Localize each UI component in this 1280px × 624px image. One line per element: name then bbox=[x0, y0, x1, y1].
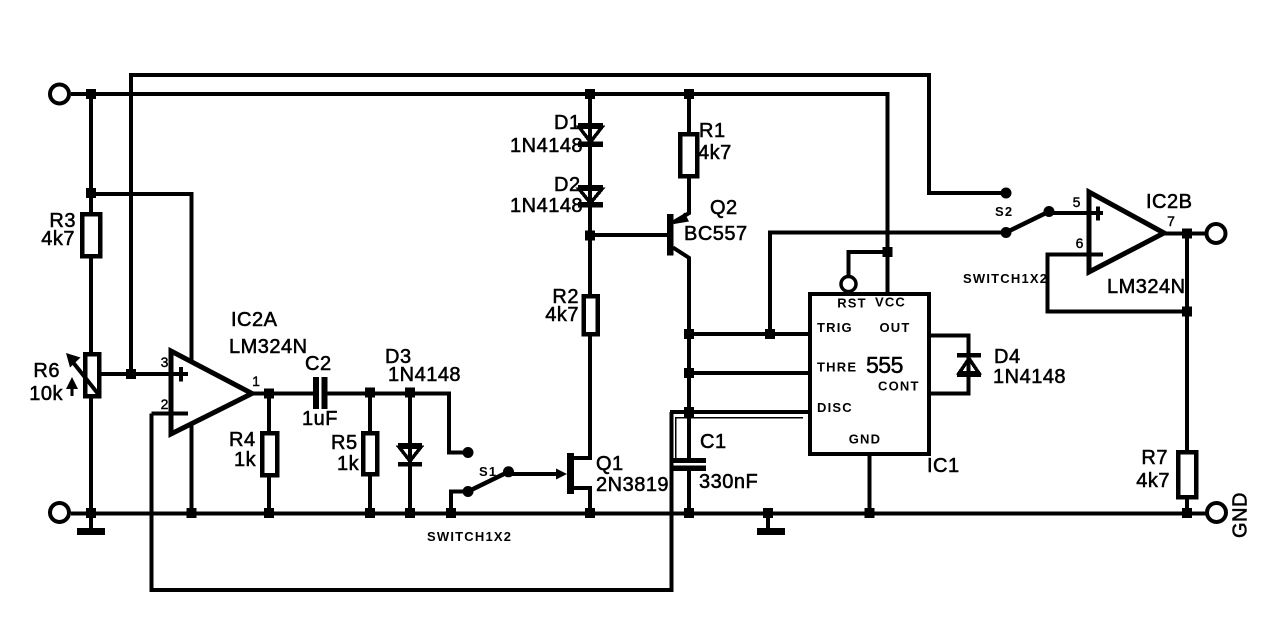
svg-text:5: 5 bbox=[1073, 194, 1081, 210]
svg-text:4k7: 4k7 bbox=[545, 304, 579, 326]
wire IC2B pin 5 bbox=[1049, 211, 1089, 215]
svg-text:SWITCH1X2: SWITCH1X2 bbox=[963, 271, 1048, 286]
svg-text:Q2: Q2 bbox=[710, 197, 738, 219]
svg-text:LM324N: LM324N bbox=[1107, 276, 1186, 298]
wire rail2 to R1 bbox=[687, 94, 691, 134]
svg-text:7: 7 bbox=[1167, 213, 1175, 229]
resistor R5 bbox=[363, 433, 377, 474]
op-amp IC2B plus input crossbar bbox=[1089, 207, 1103, 221]
wire 555 GND pin bbox=[868, 454, 872, 513]
svg-text:4k7: 4k7 bbox=[698, 142, 732, 164]
svg-text:SWITCH1X2: SWITCH1X2 bbox=[427, 529, 512, 544]
op-amp IC2A plus input crossbar bbox=[171, 367, 188, 382]
svg-text:1k: 1k bbox=[234, 449, 257, 471]
svg-text:C2: C2 bbox=[305, 353, 332, 375]
wire S1 lower contact to bottom rail bbox=[451, 492, 468, 514]
svg-text:VCC: VCC bbox=[875, 295, 906, 310]
diode D4 bbox=[957, 353, 981, 377]
transistor Q2 (PNP BC557) bbox=[667, 213, 690, 259]
svg-text:R1: R1 bbox=[699, 120, 726, 142]
wire rail2 to D1 bbox=[588, 94, 592, 236]
wire R7 bottom bbox=[1185, 497, 1189, 513]
svg-text:1N4148: 1N4148 bbox=[388, 364, 461, 386]
IC1 RST inverter bubble bbox=[841, 277, 856, 292]
resistor R3 bbox=[82, 214, 100, 256]
svg-text:TRIG: TRIG bbox=[817, 320, 853, 335]
wire Q2 collector down to C1 bbox=[687, 257, 691, 458]
wire R5 bottom bbox=[368, 474, 372, 513]
svg-text:IC2B: IC2B bbox=[1146, 191, 1192, 213]
svg-text:1N4148: 1N4148 bbox=[510, 195, 583, 217]
wire IC2B output column to R7 bbox=[1185, 234, 1189, 453]
svg-text:R4: R4 bbox=[229, 429, 256, 451]
wire THRE line bbox=[689, 371, 810, 375]
op-amp U1 IC2A bbox=[171, 351, 252, 434]
svg-text:OUT: OUT bbox=[880, 320, 911, 335]
wire ground stub left bbox=[89, 513, 93, 528]
svg-text:IC2A: IC2A bbox=[231, 309, 278, 331]
wire D3 top bbox=[408, 394, 412, 514]
svg-text:R7: R7 bbox=[1141, 447, 1168, 469]
wire R2 top bbox=[588, 236, 592, 297]
wire R6 wiper to IC2A pin 3 bbox=[99, 372, 176, 376]
op-amp IC2A minus input crossbar (pin 2 wire) bbox=[152, 412, 189, 416]
svg-text:CONT: CONT bbox=[878, 379, 920, 394]
svg-text:4k7: 4k7 bbox=[1136, 470, 1170, 492]
diode D1 bbox=[578, 123, 603, 147]
svg-text:1N4148: 1N4148 bbox=[993, 366, 1066, 388]
wire C1 bottom bbox=[687, 471, 691, 513]
terminal GND right bbox=[1207, 503, 1226, 522]
resistor R7 bbox=[1178, 452, 1196, 497]
svg-text:3: 3 bbox=[161, 354, 169, 370]
wire TRIG line bbox=[689, 332, 810, 336]
svg-text:D1: D1 bbox=[554, 112, 581, 134]
wire Q1 drain bbox=[574, 334, 590, 458]
svg-text:R6: R6 bbox=[33, 360, 60, 382]
svg-text:DISC: DISC bbox=[817, 400, 853, 415]
wire top rail 2 (V+) bbox=[71, 94, 888, 294]
svg-text:C1: C1 bbox=[700, 431, 727, 453]
svg-text:1N4148: 1N4148 bbox=[510, 135, 583, 157]
wire OUT pin to D4 bbox=[929, 336, 969, 394]
resistor R1 bbox=[680, 134, 697, 176]
resistor R2 bbox=[584, 296, 598, 334]
wire Q1 source bbox=[574, 488, 590, 513]
terminal input top bbox=[50, 85, 69, 104]
resistor R4 bbox=[262, 433, 277, 475]
svg-text:2: 2 bbox=[161, 396, 169, 412]
svg-text:BC557: BC557 bbox=[684, 223, 748, 245]
svg-text:THRE: THRE bbox=[817, 360, 857, 375]
potentiometer R6 small up arrow bbox=[66, 377, 78, 396]
svg-text:6: 6 bbox=[1076, 235, 1084, 251]
wire IC2A pin 2 feedback down bbox=[152, 412, 672, 590]
wire C2 to D3/S1 bbox=[328, 394, 464, 453]
potentiometer R6 arrow bbox=[66, 353, 99, 395]
wire DISC thin double line bbox=[676, 418, 804, 461]
wire R1 to Q2 emitter bbox=[687, 176, 691, 214]
wire node A branch to bottom rail bbox=[91, 194, 192, 513]
svg-text:4k7: 4k7 bbox=[41, 228, 75, 250]
svg-text:GND: GND bbox=[1230, 492, 1252, 538]
wire R4 bottom bbox=[267, 475, 271, 513]
svg-text:R5: R5 bbox=[331, 432, 358, 454]
terminal output right bbox=[1207, 224, 1226, 243]
svg-text:RST: RST bbox=[837, 296, 867, 311]
svg-text:S2: S2 bbox=[995, 204, 1013, 219]
wire ground stub middle bbox=[766, 513, 770, 528]
transistor Q1 (JFET 2N3819) bbox=[556, 453, 574, 494]
svg-text:1k: 1k bbox=[337, 453, 360, 475]
svg-text:555: 555 bbox=[866, 352, 903, 378]
op-amp U2 IC2B bbox=[1089, 192, 1164, 272]
svg-text:Q1: Q1 bbox=[596, 453, 624, 475]
op-amp IC2B minus input crossbar bbox=[1089, 253, 1103, 257]
capacitor C1 bbox=[670, 458, 706, 471]
diode D2 bbox=[578, 185, 603, 208]
svg-text:1uF: 1uF bbox=[302, 408, 338, 430]
wire DISC line bbox=[670, 410, 810, 414]
svg-text:S1: S1 bbox=[479, 464, 497, 479]
wire IC2B feedback bbox=[1048, 255, 1188, 312]
wire left column input to R3 bbox=[89, 94, 93, 214]
wire RST pin bbox=[849, 252, 888, 277]
svg-text:330nF: 330nF bbox=[699, 471, 758, 493]
wire diode node to Q2 base bbox=[588, 233, 667, 237]
wire R6 to bottom rail bbox=[89, 396, 93, 513]
wire S1 pole to Q1 gate bbox=[509, 472, 559, 476]
wire R4 top bbox=[267, 394, 271, 434]
ground symbol left bbox=[77, 528, 105, 535]
terminal input bottom bbox=[50, 503, 69, 522]
wire IC2A output to C2 bbox=[252, 392, 313, 396]
svg-text:D4: D4 bbox=[994, 346, 1021, 368]
svg-text:10k: 10k bbox=[29, 383, 63, 405]
svg-text:LM324N: LM324N bbox=[229, 336, 308, 358]
wire R3 to R6 bbox=[89, 256, 93, 354]
svg-text:1: 1 bbox=[252, 373, 260, 389]
capacitor C2 bbox=[313, 377, 328, 409]
ground symbol middle bbox=[757, 528, 785, 535]
resistor R6 (potentiometer body) bbox=[85, 354, 99, 396]
svg-text:GND: GND bbox=[849, 432, 882, 447]
svg-text:2N3819: 2N3819 bbox=[596, 474, 669, 496]
wire bottom rail bbox=[71, 512, 1206, 516]
wire IC2B output to terminal bbox=[1164, 232, 1206, 236]
svg-text:D2: D2 bbox=[554, 174, 581, 196]
IC1 555 timer box bbox=[810, 294, 929, 454]
switch S1 bbox=[463, 447, 515, 497]
wire R5 top bbox=[368, 394, 372, 434]
diode D3 bbox=[398, 443, 422, 467]
wire S2 lower contact to TRIG bbox=[770, 233, 1006, 335]
switch S2 bbox=[1001, 188, 1055, 239]
svg-text:IC1: IC1 bbox=[927, 455, 960, 477]
wire top rail 1 bbox=[131, 75, 1006, 376]
